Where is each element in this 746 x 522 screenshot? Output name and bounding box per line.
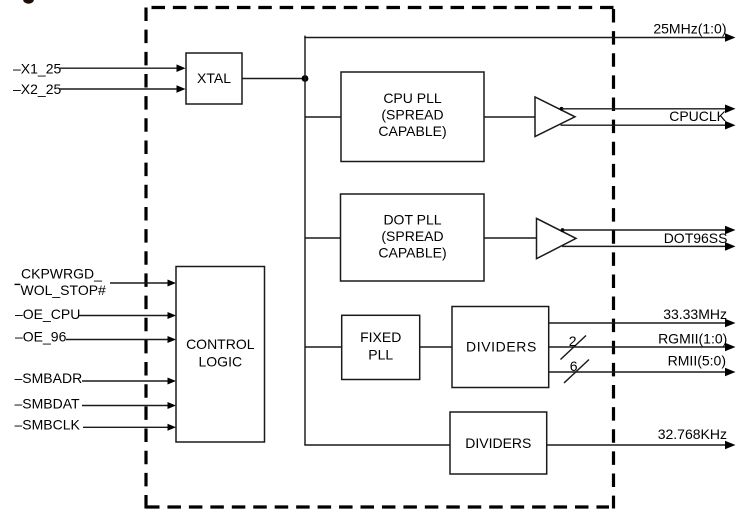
svg-text:6: 6 [570, 358, 578, 374]
wire X1_25 into XTAL [59, 64, 186, 72]
wire RGMII output [549, 343, 736, 352]
svg-text:–OE_96: –OE_96 [15, 329, 67, 345]
svg-text:–OE_CPU: –OE_CPU [15, 306, 80, 322]
wire XTAL output to bus [242, 78, 305, 80]
svg-text:DOT96SS: DOT96SS [664, 230, 728, 246]
svg-text:–X2_25: –X2_25 [13, 81, 61, 97]
svg-text:RGMII(1:0): RGMII(1:0) [658, 330, 727, 346]
wire bus to CPU PLL [305, 116, 341, 118]
wire bus bottom to dividers lower [304, 444, 450, 446]
buffer CPU output driver [535, 97, 575, 137]
cropped figure-caption glyph [23, 0, 34, 4]
svg-text:CPU PLL: CPU PLL [383, 90, 442, 106]
wire 33.33MHz output [549, 319, 736, 328]
wire SMBADR into control logic [82, 378, 176, 385]
wire CPUCLK bottom [561, 121, 736, 130]
wire bus to DOT PLL [305, 237, 341, 239]
svg-text:WOL_STOP#: WOL_STOP# [21, 282, 107, 298]
wire 32.768KHz output [547, 441, 736, 450]
block XTAL [186, 53, 242, 104]
block CPU PLL (spread capable) [341, 72, 484, 162]
buffer DOT output driver [537, 218, 577, 258]
chip boundary dashed bottom [146, 505, 609, 508]
block CONTROL LOGIC [176, 267, 265, 443]
svg-text:DIVIDERS: DIVIDERS [465, 435, 531, 451]
svg-text:PLL: PLL [368, 347, 393, 363]
svg-text:–X1_25: –X1_25 [13, 61, 61, 77]
junction dot on buffer edge [561, 228, 565, 232]
wire DOT96SS bottom [562, 242, 736, 251]
svg-text:32.768KHz: 32.768KHz [658, 426, 727, 442]
wire 25MHz output [304, 33, 735, 42]
bus-width slash 6 [564, 358, 589, 383]
wire FIXED PLL to dividers [420, 346, 452, 348]
chip boundary dashed top [152, 6, 614, 9]
svg-text:33.33MHz: 33.33MHz [663, 306, 727, 322]
wire SMBCLK into control logic [83, 424, 176, 431]
bus-width slash 2 [561, 333, 587, 360]
wire DOT PLL to buffer [484, 237, 537, 239]
svg-text:CKPWRGD_: CKPWRGD_ [21, 266, 102, 282]
svg-text:DIVIDERS: DIVIDERS [466, 339, 537, 355]
node CKPWRGD_WOL_STOP# label [15, 266, 107, 298]
block DOT PLL (spread capable) [341, 194, 485, 281]
svg-text:2: 2 [569, 333, 577, 349]
svg-text:–SMBDAT: –SMBDAT [15, 396, 81, 412]
svg-text:(SPREAD: (SPREAD [381, 228, 443, 244]
svg-text:CAPABLE): CAPABLE) [378, 123, 446, 139]
junction dot on buffer edge [560, 107, 564, 111]
block DIVIDERS lower [450, 412, 547, 474]
svg-text:25MHz(1:0): 25MHz(1:0) [653, 21, 726, 37]
wire SMBDAT into control logic [82, 402, 176, 409]
svg-text:CONTROL: CONTROL [186, 336, 255, 352]
block DIVIDERS upper [452, 307, 549, 388]
wire DOT96SS top [563, 226, 736, 235]
wire OE_CPU into control logic [79, 312, 176, 319]
svg-text:XTAL: XTAL [197, 70, 231, 86]
wire X2_25 into XTAL [59, 85, 186, 93]
wire RMII output [549, 368, 736, 377]
wire main vertical bus [304, 36, 306, 445]
svg-text:–SMBADR: –SMBADR [15, 370, 83, 386]
wire OE_96 into control logic [66, 336, 176, 343]
chip boundary dashed right [612, 9, 615, 509]
svg-text:CAPABLE): CAPABLE) [378, 245, 446, 261]
wire CPUCLK top [562, 105, 736, 114]
wire CPU PLL to buffer [484, 116, 535, 118]
svg-text:(SPREAD: (SPREAD [381, 107, 443, 123]
chip boundary dashed left [144, 8, 147, 509]
junction dot on bus [302, 75, 309, 82]
svg-text:RMII(5:0): RMII(5:0) [668, 353, 726, 369]
block FIXED PLL [342, 315, 420, 379]
wire bus to FIXED PLL [305, 346, 342, 348]
svg-text:CPUCLK: CPUCLK [669, 108, 726, 124]
wire CKPWRGD_WOL_STOP# into control logic [110, 280, 176, 287]
svg-text:FIXED: FIXED [360, 329, 401, 345]
svg-text:LOGIC: LOGIC [199, 353, 243, 369]
svg-text:–SMBCLK: –SMBCLK [15, 417, 81, 433]
svg-text:DOT PLL: DOT PLL [383, 212, 441, 228]
